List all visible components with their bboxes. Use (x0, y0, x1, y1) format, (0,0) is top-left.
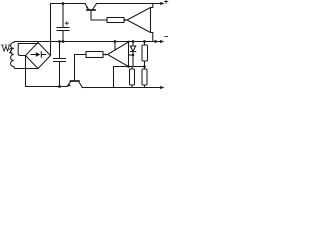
transistor VT2 (67, 82, 71, 87)
capacitor C1 (57, 4, 69, 42)
resistor R4 (130, 69, 135, 85)
resistor R5 (142, 69, 147, 85)
node mid rail zener junction (132, 40, 135, 43)
resistor R1 (107, 18, 124, 23)
op-amp U1 (127, 8, 151, 33)
wire winding bottom (16, 68, 39, 70)
wire bottom rail right (82, 87, 162, 89)
node mid rail C2 junction (58, 40, 61, 43)
node mid rail R3 junction (143, 40, 146, 43)
op-amp U2 (108, 42, 129, 67)
wire divider bus (114, 67, 145, 88)
op-amp U2 input arrow (105, 53, 108, 55)
wire bridge top lead (18, 44, 38, 56)
wire bridge left corner to bottom rail (25, 56, 27, 87)
node zener bottom junction (132, 54, 135, 57)
node top rail C1 junction (62, 2, 65, 5)
node divider R3 junction (143, 65, 146, 68)
wire mid rail (15, 41, 162, 43)
label W2 (1, 45, 12, 53)
transistor VT1 (85, 4, 89, 10)
winding W2 (11, 42, 16, 69)
wire top rail right (97, 3, 162, 5)
node mid rail terminal dot (154, 40, 157, 43)
wire U2 ref pin (129, 54, 134, 56)
node U2 top corner (127, 41, 129, 43)
node divider U2 corner (127, 65, 130, 68)
zener VD2 (130, 42, 135, 67)
diode inside bridge (31, 52, 46, 57)
terminal arrow minus (160, 40, 164, 43)
node bottom rail C2 junction (58, 85, 61, 88)
wire op-amp U2 top pin (114, 42, 116, 51)
wire top rail (51, 3, 86, 5)
resistor R2 (86, 52, 103, 58)
node mid rail pin junction (114, 40, 117, 43)
resistor R3 (142, 45, 148, 61)
wire VT1 base (91, 11, 107, 20)
terminal arrow bottom (160, 86, 164, 89)
bridge rectifier VD (26, 43, 51, 69)
wire R2 left to VT2 base (75, 55, 87, 81)
node mid rail C1 junction (62, 40, 65, 43)
op-amp U1 input arrow (125, 19, 128, 21)
capacitor C2 (54, 42, 66, 87)
terminal arrow plus (160, 2, 164, 5)
wire bridge right corner to top rail (50, 4, 52, 56)
wire bottom rail left (26, 86, 68, 88)
